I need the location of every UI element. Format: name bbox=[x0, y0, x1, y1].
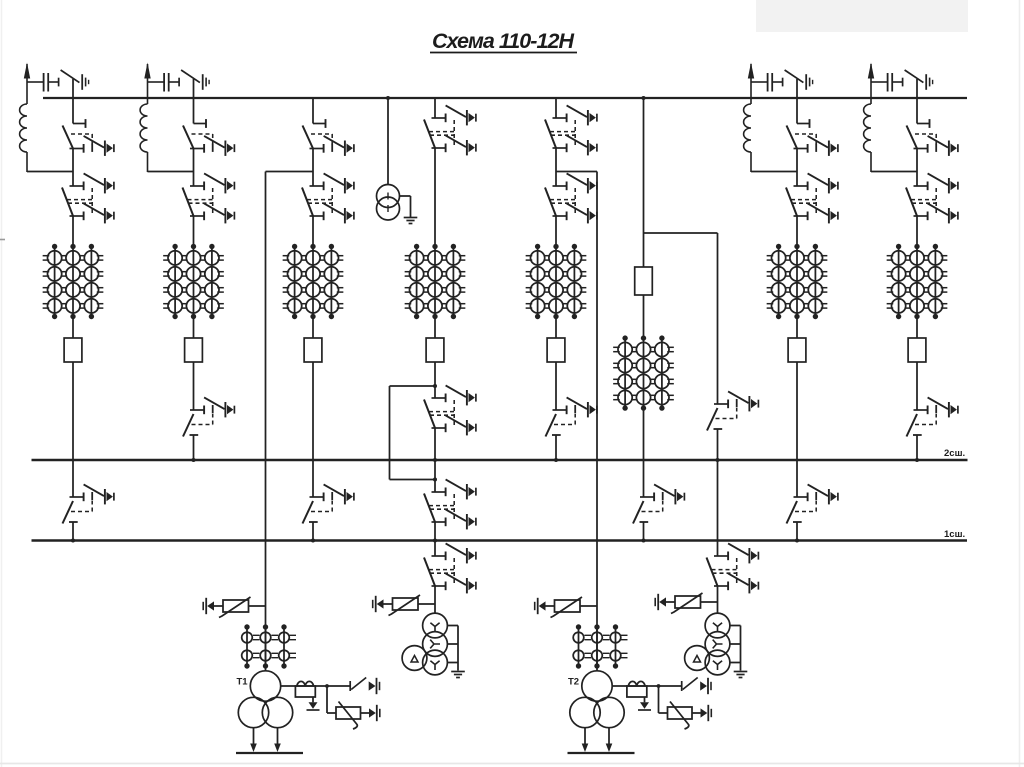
neutral earthing arrow to ground bbox=[644, 697, 646, 702]
disconnector QS5-1 with two earthing knives bbox=[545, 105, 597, 155]
wire to bus1 junction bbox=[434, 522, 436, 556]
wire to bus1 7 bbox=[796, 522, 798, 541]
circuit breaker Q8 bbox=[908, 338, 926, 362]
svg-text:Т1: Т1 bbox=[237, 677, 249, 688]
current transformers TA 2 3x4 bbox=[163, 244, 224, 319]
disconnector QS 3-2 with two earthing knives bbox=[302, 173, 354, 223]
grounding transformer AT2: stacked winding circles bbox=[705, 613, 730, 638]
Т2 secondary leads with arrows to ground bar bbox=[584, 728, 586, 745]
wire CT to breaker 4 bbox=[434, 317, 436, 339]
disconnector QS 1-1 with earthing knife bbox=[63, 119, 114, 156]
disconnector QS4-2 with two earthing knives bbox=[424, 385, 476, 435]
current transformers TA4 3x4 bbox=[405, 244, 466, 319]
main 110kV bus W1 bbox=[43, 97, 967, 99]
wire: bus to disconnector 5-1 bbox=[555, 98, 557, 118]
AT1 neutral link to ground bbox=[447, 625, 458, 627]
neutral earthing arrow to ground bbox=[312, 697, 314, 702]
wire: bus to disconnector 4-1 bbox=[434, 98, 436, 118]
circuit breaker Q7 bbox=[788, 338, 806, 362]
wire: breaker to disconnector 5 bbox=[555, 362, 557, 410]
voltage transformer TV: two circles bbox=[377, 185, 400, 208]
bus1 disconnector QS 3-3 with earthing knife bbox=[303, 484, 354, 523]
neutral surge arrester FV branch bbox=[326, 686, 328, 713]
grounding reactor ZON on transformer neutral bbox=[612, 685, 682, 687]
line entry W1-line7: arrow, HF line trap coil, coupling capacitor with earthing switch bbox=[744, 63, 813, 173]
disconnector QS 1-2 with two earthing knives bbox=[62, 173, 114, 223]
wire: bus tap down to bridge bbox=[643, 98, 645, 233]
grounding reactor ZON on transformer neutral bbox=[281, 685, 351, 687]
node: neutral branch junction bbox=[325, 684, 329, 688]
disconnector QS 8-2 with two earthing knives bbox=[906, 173, 958, 223]
disconnector QS 2-1 with earthing knife bbox=[183, 119, 234, 156]
surge arrester FV on Т1 feeder with ground bbox=[249, 605, 266, 607]
wire to bus2 junction bbox=[434, 428, 436, 492]
ground bar under Т1 bbox=[236, 752, 303, 754]
wire to bus1 1 bbox=[72, 522, 74, 541]
bridge wire horizontal bbox=[644, 232, 718, 234]
wire across bus2 to disconnector 6 bbox=[643, 408, 645, 497]
wire: breaker down across bus2 3 bbox=[312, 362, 314, 497]
circuit breaker Q5 bbox=[547, 338, 565, 362]
wire to bus2 5 bbox=[555, 435, 557, 460]
wire bridge right leg down bbox=[717, 233, 719, 404]
wire: bus to disconnector 1-1 bbox=[72, 98, 74, 124]
disconnector QS 2-2 with two earthing knives bbox=[183, 173, 235, 223]
line entry W1-line1: arrow, HF line trap coil, coupling capacitor with earthing switch bbox=[20, 63, 89, 173]
bus2 disconnector QS 5-3 with earthing knife bbox=[546, 397, 597, 436]
wire CT to breaker 8 bbox=[916, 317, 918, 339]
wire: breaker to disconnector 2 bbox=[193, 362, 195, 410]
AT1 delta tertiary winding circle bbox=[402, 646, 427, 671]
disconnector QS5-2 with two earthing knives bbox=[545, 173, 597, 223]
wire CT to breaker 2 bbox=[193, 317, 195, 339]
wire: tee to transformer T2 drop bbox=[556, 171, 597, 173]
node: neutral branch junction bbox=[657, 684, 661, 688]
transformer feeder drop for Т1 bbox=[265, 172, 267, 672]
wire to grounding transformer AT2 bbox=[717, 586, 719, 613]
circuit breaker Q2 bbox=[185, 338, 203, 362]
bus2 disconnector QS6-2 with earthing knife bbox=[707, 391, 758, 430]
wire: breaker down across bus2 7 bbox=[796, 362, 798, 497]
wire to bus1 3 bbox=[312, 522, 314, 541]
wire between disconnectors 3 bbox=[312, 149, 314, 187]
circuit breaker Q6 bbox=[635, 267, 653, 295]
wire breaker to node A bbox=[434, 362, 436, 398]
line entry W1-line2: arrow, HF line trap coil, coupling capacitor with earthing switch bbox=[140, 63, 209, 173]
wire: bus to disconnector 3-1 bbox=[312, 98, 314, 124]
bus2 disconnector QS 8-3 with earthing knife bbox=[907, 397, 958, 436]
AT2 delta tertiary winding circle bbox=[685, 646, 710, 671]
surge arrester FV on Т2 feeder with ground bbox=[580, 605, 597, 607]
wire to grounding transformer AT1 bbox=[434, 586, 436, 613]
node A junction bbox=[433, 384, 437, 388]
wire to bus2 junction bbox=[717, 429, 719, 460]
wire to CT 8 bbox=[916, 216, 918, 247]
disconnector QS 7-1 with earthing knife bbox=[787, 119, 838, 156]
wire CT to breaker 7 bbox=[796, 317, 798, 339]
bus2 disconnector QS 2-3 with earthing knife bbox=[183, 397, 234, 436]
svg-text:Т2: Т2 bbox=[568, 677, 579, 688]
faint page edge lines bbox=[1, 0, 3, 767]
current transformers TA 3x2 on Т1 feeder bbox=[242, 624, 296, 668]
wire to CT 7 bbox=[796, 216, 798, 247]
wire to CT 4 bbox=[434, 148, 436, 247]
AT2 star winding marks bbox=[713, 623, 722, 632]
wire to CT 2 bbox=[193, 216, 195, 247]
current transformers TA 3x2 on Т2 feeder bbox=[573, 624, 627, 668]
AT2 neutral link to ground bbox=[730, 625, 741, 627]
wire bridge to breaker 6 bbox=[643, 233, 645, 267]
three-winding transformer Т1: three circles bbox=[250, 671, 280, 701]
bus section 1 (1сш) bbox=[32, 539, 968, 542]
node B junction bbox=[433, 478, 437, 482]
three-winding transformer Т2: three circles bbox=[582, 671, 612, 701]
disconnector QS4-3 with two earthing knives bbox=[424, 479, 476, 529]
wire between disconnectors 8 bbox=[916, 149, 918, 187]
wire: bus to disconnector 2-1 bbox=[193, 98, 195, 124]
current transformers TA 7 3x4 bbox=[767, 244, 828, 319]
wire to CT 5 bbox=[555, 216, 557, 247]
current transformers TA6 3x4 bbox=[613, 335, 674, 410]
wire: tee to transformer drop at 3 bbox=[266, 171, 314, 173]
Т1 secondary leads with arrows to ground bar bbox=[253, 728, 255, 745]
wire to bus2 8 bbox=[916, 435, 918, 460]
AT1 star winding marks bbox=[430, 623, 439, 632]
wire CT to breaker 1 bbox=[72, 317, 74, 339]
neutral surge arrester FV branch bbox=[658, 686, 660, 713]
grounding transformer AT1: stacked winding circles bbox=[423, 613, 448, 638]
wire to bus2 2 bbox=[193, 435, 195, 460]
svg-text:1сш.: 1сш. bbox=[944, 529, 965, 540]
circuit breaker Q3 bbox=[304, 338, 322, 362]
faint bottom divider line bbox=[0, 763, 1024, 765]
neutral earthing switch bbox=[349, 681, 351, 691]
ground bar under Т2 bbox=[568, 752, 635, 754]
disconnector QS 7-2 with two earthing knives bbox=[786, 173, 838, 223]
faint gray box top right (scan artifact) bbox=[756, 0, 968, 32]
current transformers TA 1 3x4 bbox=[43, 244, 104, 319]
disconnector QS 8-1 with earthing knife bbox=[907, 119, 958, 156]
svg-text:2сш.: 2сш. bbox=[944, 448, 965, 459]
circuit breaker Q4 bbox=[426, 338, 444, 362]
surge arrester FV6 branch with ground bbox=[701, 601, 718, 603]
current transformers TA5 3x4 bbox=[526, 244, 587, 319]
wire between disconnectors 1 bbox=[72, 149, 74, 187]
wire to bus1 bbox=[643, 522, 645, 541]
wire: bus to disconnector 8-1 bbox=[916, 98, 918, 124]
bus1 disconnector QS 1-3 with earthing knife bbox=[63, 484, 114, 523]
wire breaker to CT6 bbox=[643, 295, 645, 338]
bus1 disconnector QS6-1 with earthing knife bbox=[633, 484, 684, 523]
left edge tick mark bbox=[0, 239, 5, 241]
disconnector QS4-1 with two earthing knives bbox=[424, 105, 476, 155]
TV ground connection bbox=[400, 195, 411, 197]
wire to CT 1 bbox=[72, 216, 74, 247]
circuit breaker Q1 bbox=[64, 338, 82, 362]
bus1 disconnector QS 7-3 with earthing knife bbox=[787, 484, 838, 523]
disconnector QS6-3 with two earthing knives bbox=[707, 543, 759, 593]
wire between disconnectors 2 bbox=[193, 149, 195, 187]
bus section 2 (2сш) bbox=[32, 459, 968, 462]
transformer feeder drop for Т2 bbox=[596, 172, 598, 672]
neutral earthing switch bbox=[681, 681, 683, 691]
wire bus2 across bus1 to AT2 disconnector bbox=[717, 460, 719, 556]
wire: bus to disconnector 7-1 bbox=[796, 98, 798, 124]
wire between disconnectors 7 bbox=[796, 149, 798, 187]
svg-text:Схема 110-12Н: Схема 110-12Н bbox=[432, 29, 574, 53]
wire: breaker to disconnector 8 bbox=[916, 362, 918, 410]
current transformers TA 8 3x4 bbox=[887, 244, 948, 319]
disconnector QS 3-1 with earthing knife bbox=[303, 119, 354, 156]
wire: bus to voltage transformer TV bbox=[387, 98, 389, 185]
line entry W1-line8: arrow, HF line trap coil, coupling capacitor with earthing switch bbox=[864, 63, 933, 173]
surge arrester FV4 branch with ground bbox=[418, 603, 435, 605]
bypass loop wire around QS4-2 bbox=[390, 385, 436, 387]
wire CT to breaker 3 bbox=[312, 317, 314, 339]
wire CT to breaker 5 bbox=[555, 317, 557, 339]
current transformers TA 3 3x4 bbox=[283, 244, 344, 319]
disconnector QS4-4 with two earthing knives bbox=[424, 543, 476, 593]
wire between disconnectors 5 bbox=[555, 148, 557, 186]
wire: breaker down across bus2 1 bbox=[72, 362, 74, 497]
wire to CT 3 bbox=[312, 216, 314, 247]
